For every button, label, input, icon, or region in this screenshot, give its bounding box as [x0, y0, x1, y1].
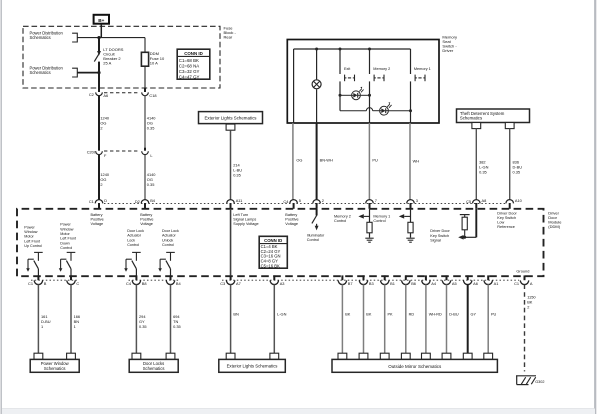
svg-text:Memory 2: Memory 2 [373, 67, 390, 71]
svg-text:B+: B+ [98, 18, 104, 23]
driver door module dashed box [17, 209, 544, 276]
svg-text:WH: WH [413, 158, 420, 163]
resistor memory 2 [367, 222, 372, 233]
svg-text:RD: RD [409, 312, 415, 316]
svg-text:0.35: 0.35 [139, 324, 147, 329]
illuminator control switch [316, 209, 318, 216]
wire BK to outside mirror [363, 284, 365, 353]
CONN ID table fuse block [177, 49, 210, 79]
svg-text:Power: Power [60, 223, 71, 227]
svg-text:Signal Lamps: Signal Lamps [233, 217, 256, 221]
connector pin A11 [227, 200, 235, 204]
wire BK to outside mirror [341, 284, 343, 353]
svg-text:Exterior Lights Schematics: Exterior Lights Schematics [227, 364, 278, 369]
connector pin B4 [170, 275, 172, 280]
svg-text:A11: A11 [236, 198, 243, 203]
node junction B+ rail [77, 37, 145, 39]
svg-text:C4=47 GY: C4=47 GY [179, 74, 200, 79]
svg-text:A6: A6 [103, 93, 108, 98]
svg-text:A: A [530, 281, 533, 286]
svg-text:0.35: 0.35 [147, 126, 155, 131]
svg-text:0.35: 0.35 [513, 170, 521, 175]
theft deterrent system ref box [457, 109, 530, 123]
wire WH-RD to outside mirror [425, 284, 427, 353]
wire WH [409, 123, 411, 200]
wire RD to outside mirror [405, 284, 407, 353]
dotted connector row top [104, 202, 506, 204]
svg-text:A1: A1 [494, 281, 499, 286]
wire bracket2 to breaker [77, 72, 99, 74]
svg-text:Signal: Signal [430, 239, 441, 243]
svg-text:2: 2 [322, 198, 324, 203]
svg-text:Rear: Rear [224, 34, 233, 39]
lamp branch [315, 48, 318, 51]
power window schematics ref [34, 353, 43, 359]
battery feed B+ [94, 15, 109, 24]
svg-text:Power: Power [24, 225, 35, 229]
svg-text:Memory 2: Memory 2 [334, 214, 351, 218]
svg-text:A5: A5 [452, 281, 457, 286]
svg-text:Driver Door: Driver Door [497, 211, 517, 215]
svg-text:A8: A8 [482, 198, 487, 203]
svg-text:OG: OG [296, 158, 302, 163]
svg-text:C5=16 BK: C5=16 BK [261, 263, 280, 268]
svg-text:L-GN: L-GN [277, 311, 286, 316]
svg-text:A3: A3 [280, 281, 285, 286]
wire PU to outside mirror [487, 284, 489, 353]
svg-text:Control: Control [334, 219, 346, 223]
svg-text:Positive: Positive [285, 217, 298, 221]
wire L-GN to exterior lights [273, 284, 275, 353]
svg-text:C2=68 NA: C2=68 NA [179, 63, 199, 68]
svg-text:10 A: 10 A [150, 60, 158, 65]
svg-text:Schematics: Schematics [44, 366, 66, 371]
connector pin 3 [407, 200, 415, 204]
connector pin A3 [273, 275, 275, 280]
svg-text:Door Lock: Door Lock [127, 229, 144, 233]
svg-text:B: B [44, 281, 47, 286]
svg-text:Exterior Lights Schematics: Exterior Lights Schematics [205, 116, 258, 121]
fuse 10 [144, 38, 146, 53]
wire BN-WH [316, 123, 318, 200]
svg-text:G302: G302 [535, 380, 544, 384]
svg-text:Driver Door: Driver Door [430, 229, 450, 233]
svg-text:B1: B1 [390, 281, 395, 286]
svg-text:2: 2 [100, 182, 102, 187]
connector pin 2 [313, 200, 321, 204]
svg-text:0.35: 0.35 [173, 324, 181, 329]
illumination lamp [312, 80, 321, 89]
svg-text:Positive: Positive [91, 217, 104, 221]
outside mirror schematics ref [338, 353, 347, 359]
branch OG [293, 49, 295, 123]
svg-text:C18: C18 [149, 93, 156, 98]
svg-text:5: 5 [299, 198, 301, 203]
svg-text:Voltage: Voltage [140, 222, 153, 226]
svg-text:B4: B4 [150, 198, 156, 203]
svg-text:Key Switch: Key Switch [430, 234, 449, 238]
wire 161 D-BU 1 [37, 284, 39, 353]
connector pin C [70, 275, 72, 280]
ground G302 [516, 375, 536, 377]
wire PU [368, 123, 370, 200]
wire GY to outside mirror [467, 284, 469, 353]
svg-text:Memory 1: Memory 1 [414, 67, 431, 71]
svg-text:B6: B6 [411, 281, 416, 286]
svg-text:D2: D2 [135, 199, 140, 204]
svg-text:Reference: Reference [497, 225, 515, 229]
svg-text:A10: A10 [515, 198, 523, 203]
connector pin B1 [384, 275, 386, 280]
in-line connector C200 pin L [144, 148, 146, 151]
wire D-BU to outside mirror [446, 284, 448, 353]
svg-text:D: D [104, 198, 107, 203]
wire B+ drop [100, 24, 102, 38]
svg-text:Control: Control [60, 246, 72, 250]
svg-text:Supply Voltage: Supply Voltage [233, 222, 258, 226]
connector pin B6 [405, 275, 407, 280]
svg-text:B7: B7 [348, 281, 353, 286]
memory 2 switch [373, 75, 375, 82]
LED memory indicator row with wire hop [339, 95, 341, 110]
wire PK to outside mirror [384, 284, 386, 353]
wire OG [292, 123, 294, 200]
svg-text:25 A: 25 A [103, 61, 111, 66]
svg-text:Down: Down [60, 241, 69, 245]
exit switch [344, 75, 346, 82]
svg-text:BK: BK [366, 312, 372, 316]
svg-text:CONN ID: CONN ID [184, 51, 203, 56]
resistor memory 1 [408, 222, 413, 233]
wire 4140 OG 0.35 lower [144, 155, 146, 200]
svg-text:7: 7 [375, 198, 377, 203]
svg-text:Key Switch: Key Switch [497, 216, 516, 220]
connector pin A4 [425, 275, 427, 280]
fuse block - rear dashed box [23, 26, 220, 88]
exterior lights schematics ref (top) [199, 112, 263, 124]
svg-text:Lock: Lock [127, 238, 135, 242]
svg-text:Control: Control [373, 219, 385, 223]
svg-text:D-BU: D-BU [449, 312, 459, 316]
svg-text:Window: Window [60, 227, 73, 231]
svg-text:Battery: Battery [285, 213, 297, 217]
wire BN to exterior lights [230, 284, 232, 353]
memory seat switch - driver box [287, 40, 439, 124]
svg-text:C4: C4 [126, 281, 132, 286]
wire 1240 OG 2 upper [98, 95, 100, 148]
svg-text:2: 2 [100, 126, 102, 131]
connector pin B3 [363, 275, 365, 280]
connector pin A6 [467, 275, 469, 280]
dotted connector rows bottom [31, 279, 79, 281]
svg-text:C1=68 BK: C1=68 BK [179, 58, 199, 63]
wire 294 GY 0.35 [135, 284, 137, 353]
wire 166 BN 1 [70, 284, 72, 353]
wire 214 L-BU 0.35 [230, 130, 232, 200]
svg-text:GY: GY [471, 312, 477, 316]
memory 2 switch branch [368, 48, 371, 51]
wire 694 TN 0.35 [170, 284, 172, 353]
svg-text:C3=32 GY: C3=32 GY [179, 69, 200, 74]
dotted connector link fuse block [104, 92, 140, 94]
memory 1 switch branch [410, 49, 412, 74]
connector pin A5 [446, 275, 448, 280]
svg-text:Exit: Exit [344, 67, 351, 71]
wire 1150 BK 2 (ground, dashed) [524, 284, 526, 371]
svg-text:B4: B4 [176, 281, 182, 286]
svg-text:(DDM): (DDM) [548, 224, 560, 229]
svg-text:Control: Control [162, 243, 174, 247]
circuit breaker 2 25A [98, 38, 100, 53]
svg-text:Motor: Motor [60, 232, 70, 236]
LED exit indicator [339, 94, 342, 97]
svg-text:PU: PU [372, 158, 378, 163]
svg-text:C4: C4 [283, 199, 289, 204]
svg-text:BK: BK [345, 312, 351, 316]
svg-text:2: 2 [527, 305, 529, 310]
svg-text:Door Lock: Door Lock [162, 229, 179, 233]
connector pin 7 [366, 200, 374, 204]
svg-text:Schematics: Schematics [30, 70, 51, 75]
svg-text:Schematics: Schematics [143, 366, 165, 371]
svg-text:0.35: 0.35 [479, 170, 487, 175]
dashed link C200 [104, 150, 140, 152]
svg-text:C1: C1 [28, 281, 33, 286]
exterior lights schematics ref (bottom) [226, 353, 235, 359]
svg-text:Voltage: Voltage [285, 222, 298, 226]
svg-text:0.35: 0.35 [233, 173, 241, 178]
svg-text:0.35: 0.35 [147, 182, 155, 187]
svg-text:Positive: Positive [140, 217, 153, 221]
exit switch branch [339, 48, 342, 51]
svg-text:A6: A6 [473, 281, 478, 286]
svg-text:3: 3 [416, 198, 418, 203]
svg-text:A7: A7 [236, 281, 241, 286]
door locks schematics ref [132, 353, 141, 359]
svg-text:Left Front: Left Front [60, 237, 76, 241]
svg-text:Battery: Battery [91, 213, 103, 217]
svg-text:Control: Control [127, 243, 139, 247]
svg-text:B3: B3 [369, 281, 374, 286]
svg-text:Actuator: Actuator [162, 234, 177, 238]
svg-text:Driver: Driver [442, 48, 453, 53]
svg-text:WH-RD: WH-RD [429, 312, 442, 316]
ground memory 1 [406, 237, 414, 239]
internal supply rail [294, 48, 411, 50]
svg-text:Up Control: Up Control [24, 244, 42, 248]
svg-text:Ground: Ground [516, 268, 529, 273]
svg-text:C1: C1 [514, 281, 519, 286]
svg-text:PK: PK [388, 312, 394, 316]
svg-text:C2: C2 [89, 92, 94, 97]
svg-text:Left Front: Left Front [24, 239, 40, 243]
svg-text:Unlock: Unlock [162, 238, 173, 242]
connector pin A1 [487, 275, 489, 280]
pull-up resistor [460, 214, 470, 216]
memory 1 switch [414, 75, 416, 82]
connector pin A10 [506, 200, 514, 204]
svg-text:Left Turn: Left Turn [233, 213, 248, 217]
svg-text:C: C [76, 281, 79, 286]
svg-text:Control: Control [307, 238, 319, 242]
svg-text:1: 1 [74, 324, 76, 329]
ground memory 2 [365, 237, 373, 239]
svg-text:CONN ID: CONN ID [264, 238, 282, 243]
svg-text:1: 1 [41, 324, 43, 329]
svg-text:Memory 1: Memory 1 [373, 214, 390, 218]
connector pin B7 [341, 275, 343, 280]
svg-text:Low: Low [497, 221, 504, 225]
svg-text:B8: B8 [142, 281, 147, 286]
wire 836 D-BU 0.35 [509, 129, 511, 200]
wire 1240 OG 2 lower [98, 155, 100, 200]
svg-text:Battery: Battery [140, 213, 152, 217]
svg-text:Illuminator: Illuminator [307, 234, 325, 238]
svg-text:PU: PU [491, 312, 497, 316]
svg-text:Outside Mirror Schematics: Outside Mirror Schematics [388, 364, 442, 369]
svg-text:Motor: Motor [24, 235, 34, 239]
wire 382 L-GN 0.35 [475, 129, 477, 200]
svg-text:A4: A4 [431, 281, 437, 286]
svg-text:Schematics: Schematics [30, 35, 51, 40]
svg-text:C1: C1 [89, 199, 94, 204]
CONN ID table DDM [259, 236, 287, 268]
wire A11 to A7 internal [230, 209, 232, 276]
svg-text:BN-WH: BN-WH [320, 158, 333, 163]
svg-text:C3: C3 [220, 281, 225, 286]
svg-text:BN: BN [233, 311, 239, 316]
svg-text:Window: Window [24, 230, 37, 234]
svg-text:Schematics: Schematics [460, 116, 482, 121]
svg-text:C5: C5 [466, 199, 471, 204]
driver door key switch signal network [475, 209, 477, 238]
connector pin C18 [144, 88, 146, 92]
wire 4140 OG 0.35 upper [144, 95, 146, 148]
svg-text:Voltage: Voltage [91, 222, 104, 226]
svg-text:Actuator: Actuator [127, 234, 142, 238]
